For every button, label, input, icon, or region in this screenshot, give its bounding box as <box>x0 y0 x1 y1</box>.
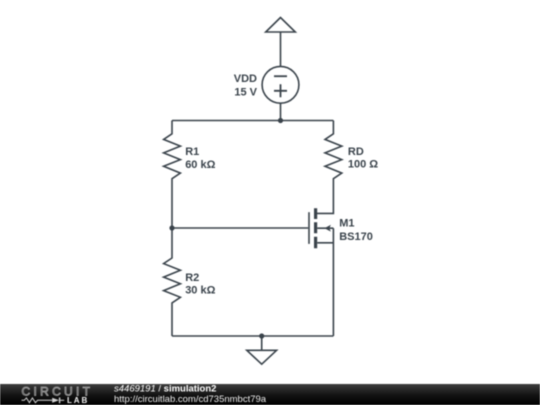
svg-text:LAB: LAB <box>67 396 89 405</box>
svg-text:R2: R2 <box>185 272 199 284</box>
svg-text:RD: RD <box>348 146 364 158</box>
svg-text:s4469191 / simulation2: s4469191 / simulation2 <box>114 384 216 395</box>
svg-text:R1: R1 <box>185 146 199 158</box>
svg-text:30 kΩ: 30 kΩ <box>185 285 215 297</box>
svg-text:100 Ω: 100 Ω <box>348 159 378 171</box>
svg-text:http://circuitlab.com/cd735nmb: http://circuitlab.com/cd735nmbct79a <box>114 394 267 405</box>
svg-text:BS170: BS170 <box>339 231 373 243</box>
svg-text:15 V: 15 V <box>234 86 257 98</box>
svg-text:60 kΩ: 60 kΩ <box>185 159 215 171</box>
svg-text:VDD: VDD <box>234 73 257 85</box>
svg-text:M1: M1 <box>339 217 354 229</box>
